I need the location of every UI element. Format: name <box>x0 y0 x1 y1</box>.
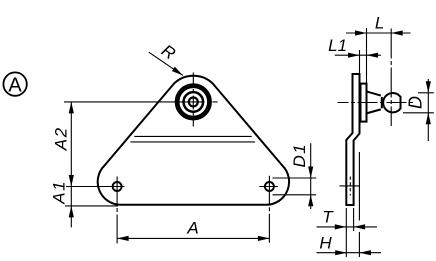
svg-text:L1: L1 <box>328 36 347 55</box>
svg-text:A: A <box>186 219 198 238</box>
svg-text:H: H <box>319 234 332 253</box>
svg-text:D: D <box>405 96 425 109</box>
svg-text:A2: A2 <box>51 126 70 151</box>
svg-text:A1: A1 <box>49 180 68 205</box>
svg-text:T: T <box>322 207 334 226</box>
svg-text:L: L <box>375 13 384 32</box>
svg-text:A: A <box>8 74 22 96</box>
svg-text:D1: D1 <box>290 143 309 168</box>
